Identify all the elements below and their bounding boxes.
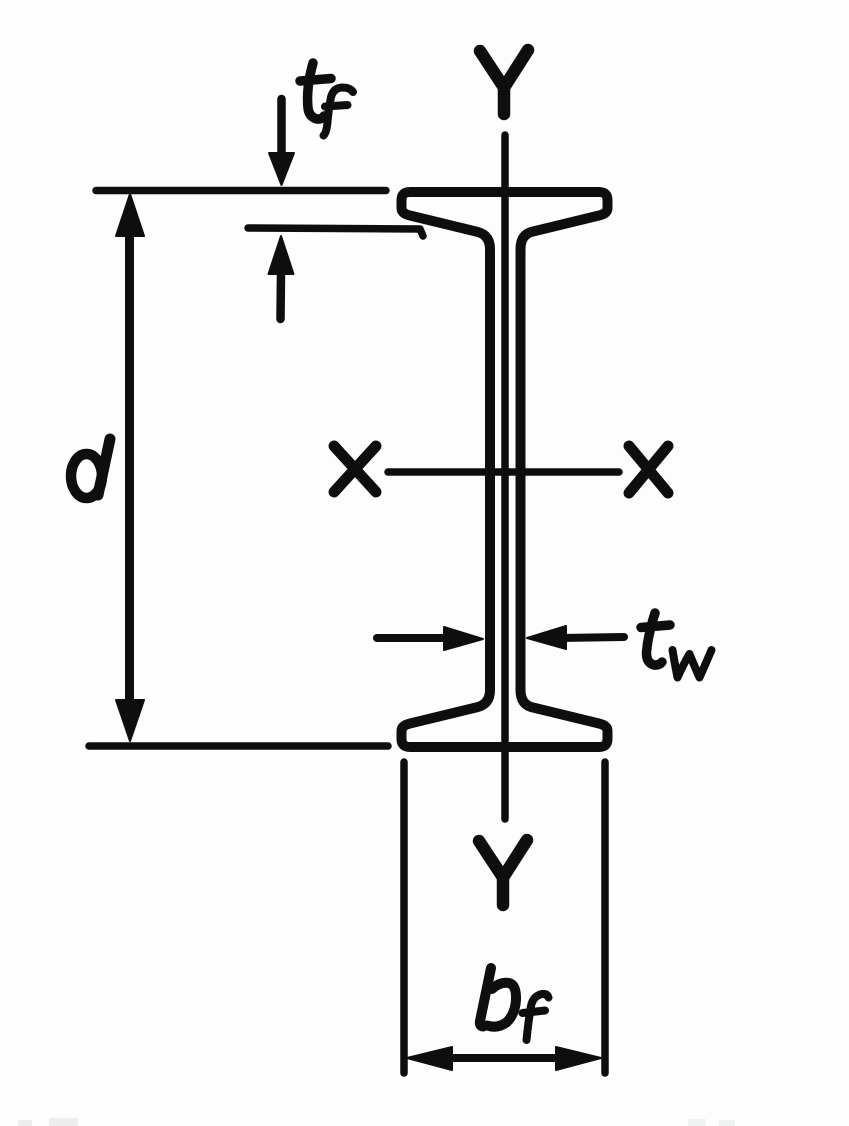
- t_f up arrow: [276, 272, 285, 319]
- arrowhead t_w right: [527, 626, 566, 649]
- arrowhead t_w left: [444, 627, 483, 650]
- label Y bottom: [479, 840, 527, 905]
- label t_w : t: [641, 613, 670, 665]
- arrowhead d top: [116, 194, 144, 236]
- arrowhead b_f right: [556, 1047, 601, 1070]
- t_w right arrow: [560, 637, 624, 638]
- I-beam outline: [402, 192, 608, 747]
- extension line top (d): [96, 187, 386, 195]
- extension line bottom (d): [89, 742, 388, 750]
- label t_f : t: [300, 63, 331, 119]
- label t_f : f subscript: [324, 88, 354, 136]
- arrowhead b_f left: [407, 1047, 452, 1070]
- arrowhead d bottom: [116, 700, 144, 741]
- label b_f : b: [480, 968, 516, 1027]
- extension line flange underside (t_f): [248, 228, 423, 236]
- t_w left arrow: [377, 634, 450, 642]
- bottom edge artifacts: [18, 1118, 735, 1126]
- arrowhead t_f down: [269, 153, 294, 185]
- dimension line d: [125, 228, 134, 706]
- label t_w : w subscript: [673, 650, 712, 678]
- label X right: [629, 446, 668, 493]
- t_f down arrow: [277, 99, 286, 158]
- extension line b_f left: [400, 762, 408, 1073]
- dimension line b_f: [440, 1054, 568, 1062]
- label X left: [334, 446, 376, 492]
- label b_f : f subscript: [523, 994, 549, 1040]
- Y axis centerline: [501, 135, 509, 819]
- extension line b_f right: [601, 762, 609, 1073]
- arrowhead t_f up: [269, 236, 294, 274]
- label d: [71, 454, 102, 498]
- label Y top: [480, 50, 528, 114]
- X axis line: [388, 468, 619, 476]
